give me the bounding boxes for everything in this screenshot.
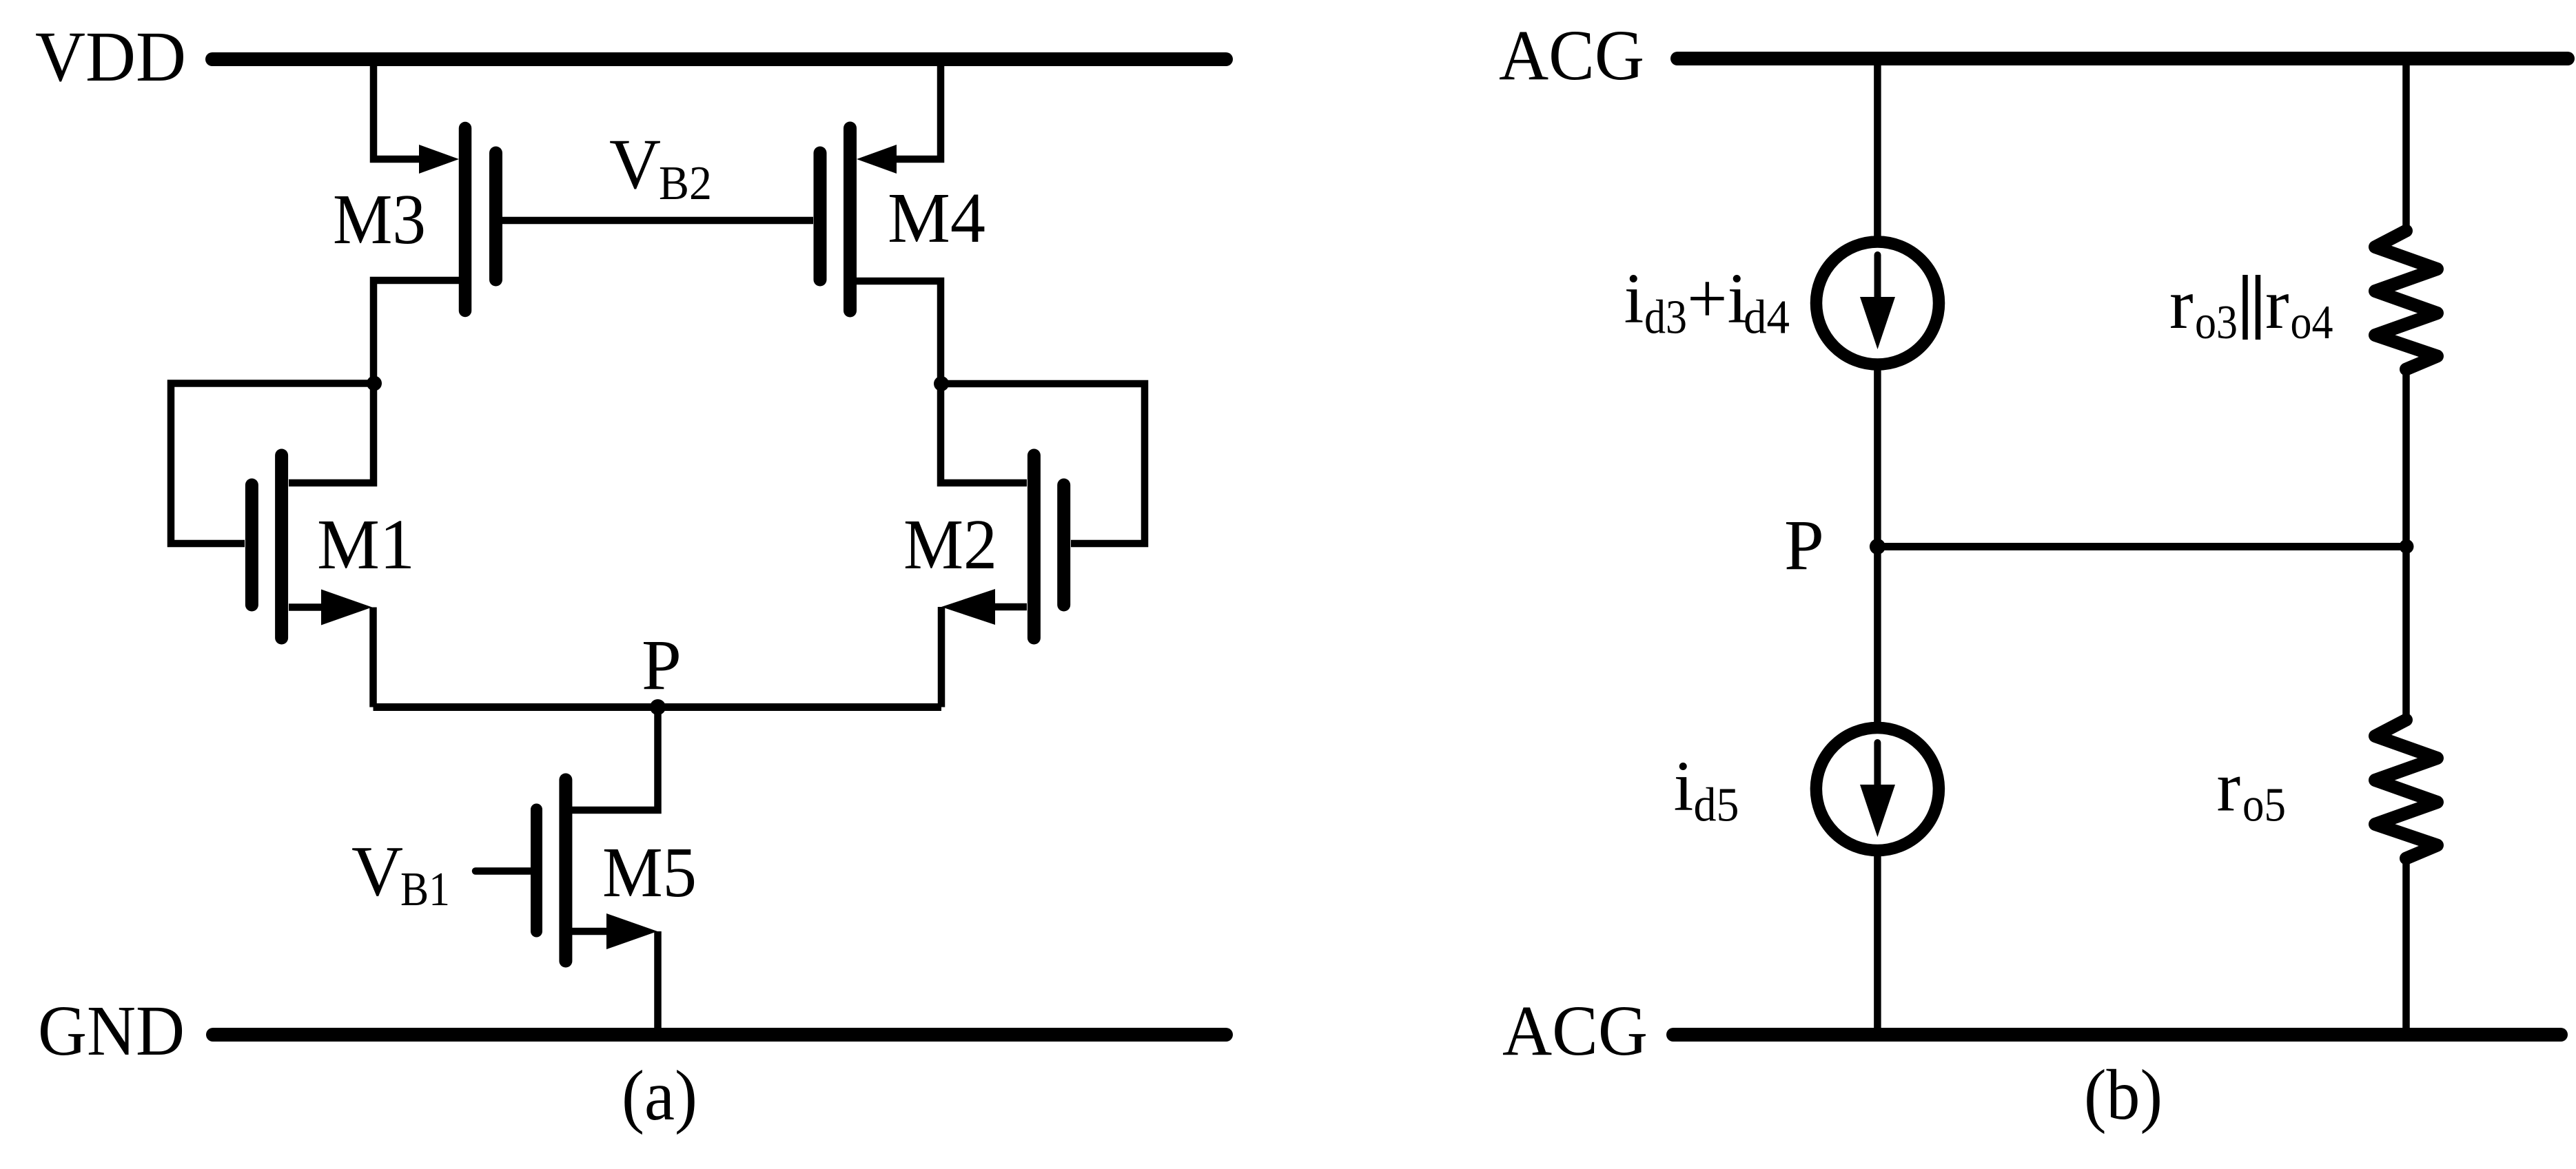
- arrow M5 source (points right, tip at wire corner): [606, 913, 657, 949]
- wire M3 source lead from VDD: [374, 59, 422, 159]
- current source id3+id4 arrowhead (down): [1860, 297, 1895, 349]
- svg-text:M4: M4: [888, 178, 985, 258]
- svg-text:i: i: [1624, 259, 1644, 338]
- arrow M1 source (points right, tip at wire corner): [321, 590, 372, 625]
- wire M4 source lead from VDD: [893, 59, 941, 159]
- wire M5 source down to GND: [654, 931, 662, 1035]
- svg-text:r: r: [2169, 265, 2194, 344]
- wire M3 drain to M1 drain (vertical x=542): [289, 280, 459, 483]
- wire P node down to M5 drain: [572, 707, 658, 811]
- svg-text:M2: M2: [903, 505, 997, 584]
- svg-text:ACG: ACG: [1499, 16, 1644, 95]
- transistor M5 gate bar: [531, 809, 542, 931]
- wire current source id3+id4 to node P: [1874, 362, 1881, 547]
- node dot P (b) left: [1870, 539, 1885, 555]
- svg-text:r: r: [2217, 747, 2241, 827]
- svg-text:i: i: [1674, 747, 1694, 826]
- svg-text:B1: B1: [400, 863, 450, 916]
- current source id5 arrowhead (down): [1860, 785, 1895, 837]
- wire M1 source lead: [289, 603, 324, 611]
- svg-text:GND: GND: [38, 991, 185, 1070]
- svg-text:r: r: [2265, 265, 2289, 344]
- ACG bottom rail: [1673, 1028, 2561, 1042]
- transistor M4 gate bar: [814, 153, 827, 280]
- wire resistor ro3||ro4 to node P and down: [2402, 369, 2410, 722]
- GND rail: [213, 1028, 1226, 1042]
- arrow M4 source (points left into channel): [857, 145, 897, 174]
- svg-text:M3: M3: [333, 180, 426, 259]
- current source id3+id4 circle: [1817, 242, 1939, 364]
- wire M5 source lead: [572, 928, 609, 935]
- svg-text:d3: d3: [1644, 291, 1687, 344]
- wire node P down to current source id5: [1874, 547, 1881, 732]
- wire M2 source lead: [992, 603, 1027, 611]
- node dot P (b) right: [2400, 539, 2414, 554]
- resistor ro5 zigzag: [2375, 720, 2437, 858]
- transistor M3 channel bar: [459, 128, 472, 311]
- transistor M1 channel bar: [275, 455, 288, 638]
- VDD rail: [212, 52, 1226, 66]
- wire M2 gate loop: [941, 384, 1145, 544]
- arrow M3 source (points right into channel): [419, 145, 459, 174]
- wire current source id5 to ACG bottom: [1874, 847, 1881, 1035]
- wire M5 gate lead from VB1: [476, 867, 531, 875]
- wire ACG top to current source id3+id4: [1874, 59, 1881, 245]
- wire M1 gate loop: [171, 384, 374, 544]
- transistor M3 gate bar: [489, 153, 502, 280]
- svg-text:M5: M5: [602, 833, 697, 912]
- current source id5 arrow shaft: [1874, 743, 1881, 798]
- wire M2 source down to tail node: [938, 607, 945, 707]
- svg-text:V: V: [351, 832, 403, 911]
- wire node P horizontal: [1877, 543, 2406, 550]
- svg-text:o3: o3: [2195, 296, 2238, 349]
- svg-text:o5: o5: [2242, 779, 2286, 832]
- wire M1 source down to tail node: [369, 608, 377, 707]
- svg-text:B2: B2: [659, 157, 712, 210]
- svg-text:o4: o4: [2291, 296, 2333, 349]
- svg-text:d5: d5: [1694, 779, 1739, 832]
- svg-text:+: +: [1687, 259, 1728, 338]
- transistor M1 gate bar: [245, 485, 258, 605]
- wire tail bottom (M1 source to M2 source): [374, 703, 942, 711]
- transistor M5 channel bar: [559, 780, 572, 961]
- wire resistor ro5 to ACG bottom: [2402, 858, 2410, 1035]
- svg-text:P: P: [642, 625, 682, 705]
- svg-text:V: V: [609, 125, 661, 204]
- transistor M2 gate bar: [1057, 485, 1070, 605]
- node dot P (tail): [650, 699, 666, 715]
- arrow M2 source (points left, tip at wire corner): [941, 589, 995, 625]
- svg-text:P: P: [1784, 506, 1824, 585]
- svg-text:ACG: ACG: [1502, 991, 1648, 1070]
- svg-text:M1: M1: [317, 505, 415, 584]
- svg-text:(a): (a): [622, 1056, 697, 1135]
- svg-text:(b): (b): [2084, 1055, 2163, 1135]
- current source id5 circle: [1816, 728, 1939, 851]
- svg-text:d4: d4: [1744, 291, 1790, 344]
- svg-text:VDD: VDD: [35, 17, 186, 96]
- transistor M2 channel bar: [1028, 455, 1041, 638]
- node dot M1 drain-gate junction: [367, 376, 382, 391]
- transistor M4 channel bar: [844, 128, 857, 311]
- ACG top rail: [1677, 52, 2568, 65]
- wire ACG top to resistor ro3||ro4: [2402, 59, 2410, 233]
- wire gate bias VB2 between M3 and M4 gates: [502, 217, 813, 225]
- node dot M2 drain-gate junction: [934, 376, 949, 391]
- wire M4 drain to M2 drain (vertical x=1365): [857, 281, 1027, 483]
- current source id3+id4 arrow shaft: [1874, 255, 1881, 310]
- resistor ro3||ro4 zigzag: [2375, 231, 2437, 369]
